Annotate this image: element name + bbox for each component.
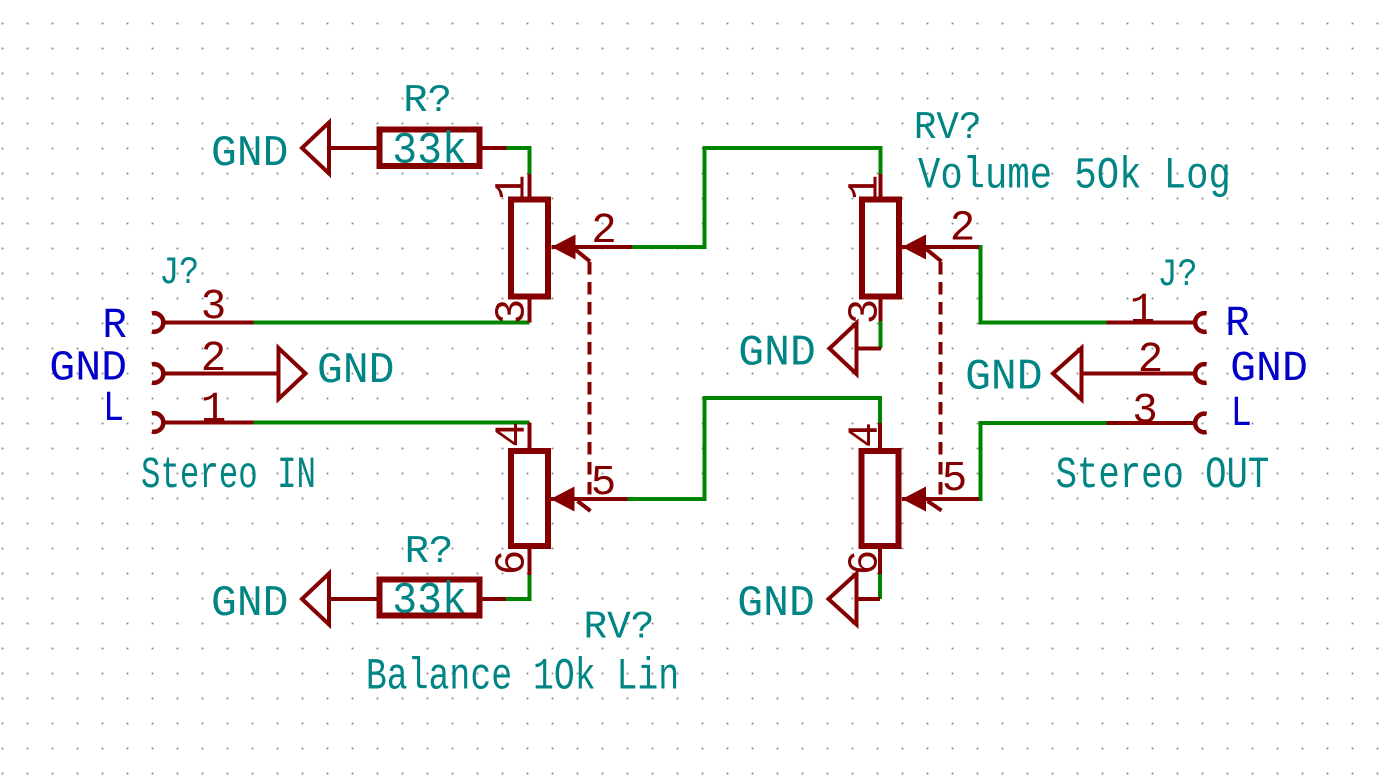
connector J1 pin 1 arc bbox=[152, 413, 163, 432]
svg-text:Volume 5Ok Log: Volume 5Ok Log bbox=[918, 152, 1231, 202]
resistor R2 body bbox=[380, 580, 480, 616]
svg-text:3: 3 bbox=[489, 299, 537, 325]
resistor R1 pins bbox=[329, 146, 507, 150]
svg-text:3: 3 bbox=[201, 283, 227, 331]
svg-text:J?: J? bbox=[159, 251, 199, 295]
connector J2 pin 1 arc bbox=[1195, 313, 1206, 332]
potentiometer RV1B wiper arrowhead bbox=[551, 487, 575, 512]
svg-text:33k: 33k bbox=[392, 577, 467, 627]
gang link dashed line (balance pot) bbox=[574, 249, 591, 512]
svg-text:2: 2 bbox=[950, 205, 976, 253]
svg-text:2: 2 bbox=[1138, 336, 1164, 384]
potentiometer RV2B wiper arrowhead bbox=[902, 487, 926, 512]
gang link dashed line (volume pot) bbox=[926, 249, 942, 511]
svg-text:5: 5 bbox=[591, 459, 617, 507]
svg-text:6: 6 bbox=[489, 550, 537, 576]
connector J1 pin 3 arc bbox=[152, 313, 163, 332]
resistor R1 body bbox=[380, 130, 480, 167]
svg-text:5: 5 bbox=[942, 455, 968, 503]
wire: volume pot A wiper to right jack pin1 bbox=[979, 247, 1107, 323]
svg-text:RV?: RV? bbox=[584, 606, 655, 650]
svg-text:GND: GND bbox=[211, 130, 289, 179]
wire: left jack pin3 row to balance pot A pin3 bbox=[254, 321, 530, 325]
potentiometer RV1A body bbox=[511, 200, 548, 297]
svg-text:J?: J? bbox=[1158, 253, 1198, 297]
potentiometer RV1B pins bbox=[530, 423, 628, 576]
connector J2 pin 2 arc bbox=[1195, 364, 1206, 383]
ground label GND (right jack) triangle bbox=[1053, 348, 1082, 400]
svg-text:GND: GND bbox=[211, 580, 289, 629]
ground label GND (volume A) triangle bbox=[830, 323, 857, 374]
svg-text:1: 1 bbox=[1130, 287, 1156, 335]
potentiometer RV1A wiper arrowhead bbox=[552, 235, 576, 260]
svg-text:Stereo OUT: Stereo OUT bbox=[1056, 451, 1270, 501]
wire: balance pot B pin6 to resistor R2 bbox=[506, 574, 530, 600]
wire: volume pot A pin3 to GND bbox=[879, 320, 883, 349]
svg-text:RV?: RV? bbox=[914, 106, 982, 150]
potentiometer RV1B body bbox=[511, 451, 548, 546]
svg-text:1: 1 bbox=[489, 175, 537, 201]
svg-text:R?: R? bbox=[403, 79, 452, 123]
ground label GND (left jack) triangle bbox=[279, 348, 306, 399]
svg-text:L: L bbox=[103, 385, 124, 433]
svg-text:2: 2 bbox=[201, 335, 227, 383]
svg-text:Stereo IN: Stereo IN bbox=[141, 451, 316, 501]
svg-text:3: 3 bbox=[1132, 387, 1158, 435]
potentiometer RV2B pins bbox=[857, 423, 980, 599]
ground label GND (bottom-left) triangle bbox=[302, 574, 329, 625]
svg-text:GND: GND bbox=[737, 580, 815, 629]
wire: balance pot A wiper to volume pot A pin1 bbox=[632, 148, 881, 247]
svg-text:GND: GND bbox=[738, 330, 816, 379]
svg-text:33k: 33k bbox=[392, 127, 467, 177]
svg-text:6: 6 bbox=[842, 550, 890, 576]
svg-text:2: 2 bbox=[591, 207, 617, 255]
connector J2 pin 3 arc bbox=[1195, 414, 1206, 433]
potentiometer RV2A pins bbox=[857, 174, 980, 349]
svg-text:4: 4 bbox=[489, 422, 537, 448]
svg-text:1: 1 bbox=[201, 386, 227, 434]
svg-text:R?: R? bbox=[405, 530, 454, 574]
wire: volume pot B wiper to right jack pin3 bbox=[979, 423, 1107, 499]
svg-text:Balance 1Ok Lin: Balance 1Ok Lin bbox=[366, 653, 679, 703]
potentiometer RV2A body bbox=[862, 200, 899, 297]
ground label GND (top-left) triangle bbox=[302, 123, 329, 174]
svg-text:R: R bbox=[1225, 300, 1250, 348]
potentiometer RV2A wiper arrowhead bbox=[902, 235, 926, 260]
potentiometer RV2B body bbox=[862, 451, 899, 546]
wire: volume pot B pin6 to GND bbox=[878, 573, 882, 599]
svg-text:GND: GND bbox=[965, 354, 1043, 403]
wire: balance pot B wiper to volume pot B pin4 bbox=[628, 398, 881, 499]
svg-text:GND: GND bbox=[317, 347, 395, 396]
svg-text:GND: GND bbox=[1230, 345, 1308, 393]
resistor R2 pins bbox=[329, 597, 506, 601]
connector J1 pin 2 arc bbox=[152, 364, 163, 383]
wire: resistor R1 to balance pot A pin1 bbox=[507, 148, 530, 176]
potentiometer RV1A pins bbox=[530, 174, 633, 323]
connector J1 pin lines bbox=[164, 323, 279, 423]
svg-text:3: 3 bbox=[842, 299, 890, 325]
svg-text:4: 4 bbox=[842, 422, 890, 448]
ground label GND (volume B) triangle bbox=[829, 574, 857, 625]
connector J2 pin lines bbox=[1082, 323, 1196, 424]
svg-text:1: 1 bbox=[842, 175, 890, 201]
svg-text:R: R bbox=[102, 302, 127, 350]
svg-text:L: L bbox=[1231, 390, 1252, 438]
wire: left jack pin1 row to balance pot B pin4 bbox=[254, 421, 530, 425]
